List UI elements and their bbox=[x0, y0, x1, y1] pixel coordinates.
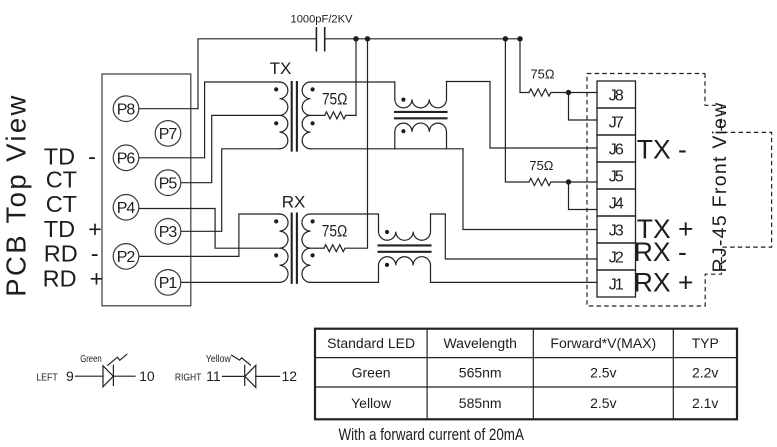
PCB connector box outline bbox=[102, 74, 191, 306]
svg-text:P6: P6 bbox=[117, 151, 136, 168]
wire: rail drop to TX termination resistor bbox=[355, 39, 357, 116]
wire: branch from R3 node down to J7 bbox=[569, 93, 598, 121]
phase dot T2 primary lower bbox=[274, 253, 278, 257]
transformer T2 core bbox=[292, 214, 297, 283]
svg-text:P1: P1 bbox=[159, 275, 178, 292]
phase dot T1 secondary lower bbox=[311, 121, 315, 125]
wire: P4 to RX primary center tap (CT) bbox=[139, 209, 280, 249]
pin P7 bbox=[155, 121, 181, 147]
svg-text:75Ω: 75Ω bbox=[322, 223, 348, 241]
svg-text:J6: J6 bbox=[609, 141, 624, 158]
svg-text:J4: J4 bbox=[609, 195, 624, 212]
svg-text:J8: J8 bbox=[609, 87, 624, 104]
wire: P6 to TX primary top (TD-) bbox=[139, 82, 280, 158]
svg-text:585nm: 585nm bbox=[459, 395, 502, 411]
svg-text:P7: P7 bbox=[159, 126, 178, 143]
svg-text:565nm: 565nm bbox=[459, 365, 502, 381]
svg-text:Standard LED: Standard LED bbox=[327, 335, 415, 351]
wire: rail drop to RX termination resistor bbox=[367, 39, 369, 248]
svg-text:RIGHT: RIGHT bbox=[175, 372, 202, 384]
wire: top coupling rail left segment from P8 riser to capacitor bbox=[198, 39, 316, 109]
wire: LED D2 anode lead to pin 12 bbox=[256, 375, 280, 377]
svg-text:Wavelength: Wavelength bbox=[443, 335, 516, 351]
svg-text:2.5v: 2.5v bbox=[590, 365, 616, 381]
wire: P8 to top rail bbox=[139, 108, 198, 110]
svg-text:J1: J1 bbox=[609, 276, 624, 293]
wire: RX secondary bottom to choke L2 bottom bbox=[311, 281, 379, 283]
J6 pin box bbox=[597, 135, 636, 162]
LED D2 emission arrow bbox=[232, 355, 251, 365]
svg-text:RD +: RD + bbox=[43, 265, 104, 291]
phase dot T1 secondary upper bbox=[311, 87, 315, 91]
LED D2 cathode bar bbox=[244, 365, 246, 385]
wire: RX secondary top to choke L2 bbox=[311, 214, 379, 232]
wire: TX secondary bottom to choke L1 bottom bbox=[311, 148, 464, 150]
pin P5 bbox=[155, 170, 181, 196]
table row separators bbox=[315, 358, 737, 387]
J3 pin box bbox=[597, 216, 636, 243]
J7 pin box bbox=[597, 108, 636, 135]
pin P1 bbox=[155, 270, 181, 296]
svg-text:12: 12 bbox=[282, 368, 298, 384]
wire: branch from R4 node down to J4 bbox=[569, 182, 598, 210]
resistor R2 75ohm RX termination zigzag bbox=[324, 245, 368, 252]
J4 pin box bbox=[597, 189, 636, 216]
J8 pin box bbox=[597, 81, 636, 108]
wire: rail drop to J5/J4 resistor bbox=[505, 39, 529, 182]
phase dot L2 bottom bbox=[385, 263, 389, 267]
svg-text:RD -: RD - bbox=[44, 241, 99, 267]
transformer T1 core bbox=[292, 82, 297, 151]
svg-text:Yellow: Yellow bbox=[206, 354, 232, 365]
wire: LED D2 cathode lead from pin 11 bbox=[223, 375, 245, 377]
svg-text:P8: P8 bbox=[117, 102, 136, 119]
svg-text:Green: Green bbox=[352, 365, 391, 381]
svg-text:RJ-45 Front View: RJ-45 Front View bbox=[709, 101, 731, 272]
LED D1 green diode triangle bbox=[103, 366, 113, 387]
wire: TX secondary center tap to resistor R1 bbox=[311, 114, 325, 116]
wire: TX secondary top to common-mode choke L1 bbox=[311, 82, 395, 99]
J5 pin box bbox=[597, 162, 636, 189]
pin P3 bbox=[155, 219, 181, 245]
wire: TX+ from choke L1 to J3 bbox=[463, 149, 597, 230]
resistor R3 75ohm to J8/J7 zigzag bbox=[529, 89, 597, 96]
svg-text:TYP: TYP bbox=[692, 335, 719, 351]
junction dot rail-R4 bbox=[503, 36, 508, 41]
resistor R1 75ohm TX termination zigzag bbox=[325, 112, 356, 119]
phase dot L1 top bbox=[401, 98, 405, 102]
svg-text:TD +: TD + bbox=[44, 216, 102, 242]
svg-text:Forward*V(MAX): Forward*V(MAX) bbox=[550, 335, 656, 351]
svg-text:75Ω: 75Ω bbox=[322, 91, 348, 109]
choke L1 top winding bbox=[395, 82, 447, 108]
phase dot T1 primary lower bbox=[274, 121, 278, 125]
svg-text:RX +: RX + bbox=[634, 267, 694, 297]
svg-text:9: 9 bbox=[66, 368, 74, 384]
table column separators bbox=[427, 329, 673, 420]
svg-text:75Ω: 75Ω bbox=[531, 67, 555, 81]
junction dot rail-R3 bbox=[517, 36, 522, 41]
phase dot T1 primary upper bbox=[274, 87, 278, 91]
LED D1 emission arrow bbox=[108, 354, 127, 365]
wire: RX+ from choke L2 to J1 bbox=[431, 281, 598, 283]
svg-text:Green: Green bbox=[80, 354, 102, 365]
transformer T2 RX secondary winding bbox=[302, 214, 311, 282]
svg-text:2.2v: 2.2v bbox=[692, 365, 718, 381]
transformer T1 TX secondary winding bbox=[302, 82, 310, 149]
choke L2 bottom winding bbox=[379, 257, 431, 283]
svg-text:J5: J5 bbox=[609, 168, 624, 185]
svg-text:2.1v: 2.1v bbox=[692, 395, 718, 411]
wire: RX secondary center tap to resistor R2 bbox=[311, 247, 325, 249]
RJ-45 connector dashed outline bbox=[587, 74, 772, 307]
J2 pin box bbox=[597, 243, 636, 270]
phase dot T2 primary upper bbox=[274, 219, 278, 223]
junction dot rail-R2 bbox=[365, 36, 370, 41]
pin P8 bbox=[113, 96, 139, 122]
phase dot L1 bottom bbox=[401, 129, 405, 133]
LED D2 yellow diode triangle bbox=[245, 365, 256, 387]
svg-text:RX: RX bbox=[282, 193, 306, 212]
svg-text:Yellow: Yellow bbox=[351, 395, 392, 411]
svg-text:CT: CT bbox=[46, 191, 77, 217]
choke L2 top winding bbox=[379, 214, 431, 240]
LED spec table outer border bbox=[315, 329, 737, 420]
svg-text:11: 11 bbox=[206, 368, 221, 384]
svg-text:RX -: RX - bbox=[634, 237, 687, 267]
svg-text:P3: P3 bbox=[159, 224, 178, 241]
svg-text:1000pF/2KV: 1000pF/2KV bbox=[291, 14, 354, 26]
wire: rail drop to J8/J7 resistor bbox=[520, 39, 529, 93]
choke L1 core bbox=[395, 112, 447, 118]
resistor R4 75ohm to J5/J4 zigzag bbox=[529, 178, 597, 185]
svg-text:TX: TX bbox=[270, 59, 292, 78]
svg-text:CT: CT bbox=[46, 166, 77, 192]
wire: RX- from choke L2 to J2 bbox=[431, 214, 598, 259]
svg-text:75Ω: 75Ω bbox=[529, 159, 553, 173]
svg-text:P5: P5 bbox=[159, 176, 178, 193]
svg-text:10: 10 bbox=[139, 368, 155, 384]
phase dot T2 secondary lower bbox=[311, 253, 315, 257]
junction dot rail-R1 bbox=[353, 36, 358, 41]
phase dot L2 top bbox=[385, 230, 389, 234]
svg-text:With a forward current of 20mA: With a forward current of 20mA bbox=[339, 425, 525, 444]
transformer T2 RX primary winding bbox=[280, 214, 289, 282]
wire: LED D1 cathode lead to pin 10 bbox=[113, 375, 135, 377]
wire: top coupling rail right segment from capacitor to rail end bbox=[325, 38, 520, 40]
pin P4 bbox=[113, 195, 139, 221]
phase dot T2 secondary upper bbox=[311, 219, 315, 223]
junction dot R4-J5/J4 bbox=[566, 179, 571, 184]
LED D1 cathode bar bbox=[112, 365, 114, 385]
choke L2 core bbox=[379, 245, 431, 251]
svg-text:J2: J2 bbox=[609, 249, 624, 266]
pin P2 bbox=[113, 244, 139, 270]
svg-text:TX -: TX - bbox=[637, 135, 687, 165]
svg-text:P4: P4 bbox=[117, 200, 136, 217]
wire: P5 to TX primary center tap (CT) bbox=[181, 115, 280, 182]
svg-text:J3: J3 bbox=[609, 222, 624, 239]
wire: TX- from choke L1 to J6 bbox=[447, 82, 598, 149]
wire: P3 to TX primary bottom (TD+) bbox=[181, 149, 280, 232]
junction dot R3-J8/J7 bbox=[566, 90, 571, 95]
capacitor C1 1000pF/2KV plates bbox=[316, 28, 324, 51]
wire: P1 to RX primary bottom (RD+) bbox=[181, 281, 280, 283]
svg-text:LEFT: LEFT bbox=[36, 372, 58, 384]
svg-text:PCB Top View: PCB Top View bbox=[1, 93, 32, 297]
J1 pin box bbox=[597, 270, 636, 297]
wire: LED D1 anode lead from pin 9 bbox=[76, 375, 104, 377]
choke L1 bottom winding bbox=[395, 123, 447, 149]
pin P6 bbox=[113, 145, 139, 171]
svg-text:2.5v: 2.5v bbox=[590, 395, 616, 411]
svg-text:P2: P2 bbox=[117, 249, 136, 266]
transformer T1 TX primary winding bbox=[280, 82, 288, 149]
wire: P2 to RX primary top (RD-) bbox=[139, 214, 280, 256]
svg-text:J7: J7 bbox=[609, 114, 624, 131]
